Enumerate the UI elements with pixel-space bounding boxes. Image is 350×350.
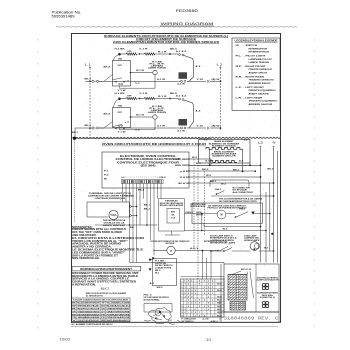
svg-text:ELEMENT GRILLOR: ELEMENT GRILLOR xyxy=(212,156,236,158)
svg-text:1: 1 xyxy=(185,287,186,289)
svg-text:2: 2 xyxy=(208,306,209,308)
svg-text:AVANT DROIT: AVANT DROIT xyxy=(249,72,269,75)
bake element xyxy=(206,148,243,150)
pin number row xyxy=(121,177,123,178)
door lamp switch symbol xyxy=(223,250,225,252)
svg-text:FRENTE DERECHO: FRENTE DERECHO xyxy=(249,69,273,71)
svg-text:Y-1: Y-1 xyxy=(135,130,140,132)
svg-text:LAMPE TEMOIN: LAMPE TEMOIN xyxy=(249,61,270,64)
wire EOC to L2 rail xyxy=(190,170,256,172)
svg-text:SW: SW xyxy=(118,59,122,61)
svg-text:BK-3: BK-3 xyxy=(85,79,91,81)
svg-text:L 1: L 1 xyxy=(85,63,92,67)
svg-text:THERMAL SW DE LIMIT (TCO): THERMAL SW DE LIMIT (TCO) xyxy=(89,192,132,195)
wire feed into table xyxy=(181,276,225,278)
svg-text:P-2: P-2 xyxy=(104,175,109,177)
svg-text:AL TANGUE DU FIL: AL TANGUE DU FIL xyxy=(86,295,104,298)
svg-text:1-2: 1-2 xyxy=(244,140,248,142)
svg-text:1: 1 xyxy=(195,303,196,305)
wire switch left to plug xyxy=(99,122,113,129)
oven lamp symbol xyxy=(250,242,259,251)
svg-text:H-1 BK: H-1 BK xyxy=(115,48,126,50)
wire EOC to N rail xyxy=(190,182,274,184)
svg-text:BK-2: BK-2 xyxy=(144,209,150,211)
svg-text:W: W xyxy=(72,306,76,308)
svg-text:BK-1: BK-1 xyxy=(72,132,78,134)
svg-text:318046869 REV. C: 318046869 REV. C xyxy=(224,318,280,322)
svg-text:BLK 2: BLK 2 xyxy=(101,286,110,290)
svg-text:INTERRUPTOR: INTERRUPTOR xyxy=(249,48,268,50)
svg-text:4-1 4-2: 4-1 4-2 xyxy=(176,94,187,97)
surface element R.F. loop xyxy=(179,54,181,56)
svg-text:MOTEUR: MOTEUR xyxy=(166,243,175,245)
svg-text:M: M xyxy=(170,249,172,253)
wire aux rail vertical 2 xyxy=(269,183,271,252)
rating stamp 2 xyxy=(262,301,265,304)
svg-text:SW-3: SW-3 xyxy=(239,209,245,211)
svg-text:ORN-1: ORN-1 xyxy=(186,212,194,214)
svg-text:GRAY/GRIS/GRIS: GRAY/GRIS/GRIS xyxy=(107,310,131,313)
broil element xyxy=(210,161,237,163)
svg-text:VENTILATEUR: VENTILATEUR xyxy=(190,205,206,208)
svg-text:WB: WB xyxy=(101,320,105,322)
color row BK xyxy=(72,303,131,305)
svg-text:WIRING DIAGRAM: WIRING DIAGRAM xyxy=(161,21,214,26)
wire L1 vertical dashed xyxy=(89,68,91,137)
svg-text:A (SEE FIG #): A (SEE FIG #) xyxy=(260,296,275,299)
lock motor symbol xyxy=(217,210,226,219)
wire switch left to plug xyxy=(99,75,113,82)
svg-text:R.R.: R.R. xyxy=(236,76,243,78)
junction L1 circuit2 xyxy=(89,127,91,129)
svg-text:PURPLE/PURPURA: PURPLE/PURPURA xyxy=(107,313,131,316)
svg-text:BU: BU xyxy=(101,306,105,308)
svg-text:2: 2 xyxy=(204,293,205,295)
svg-text:Y-10: Y-10 xyxy=(197,126,203,128)
svg-text:CLASIFICACION ELECTR.: CLASIFICACION ELECTR. xyxy=(256,279,280,282)
top tear squiggle line xyxy=(56,26,297,29)
svg-text:R.F.: R.F. xyxy=(236,66,243,68)
svg-text:RELAIS VENTILATEUR: RELAIS VENTILATEUR xyxy=(160,204,184,207)
left connector strip hatched xyxy=(228,275,247,301)
svg-text:5995391489: 5995391489 xyxy=(52,15,75,19)
wire bottom return xyxy=(99,80,153,82)
svg-text:A BK-2: A BK-2 xyxy=(211,320,218,323)
wire EOC to rail 4 xyxy=(190,176,261,178)
svg-text:L: L xyxy=(212,303,213,305)
wire lamp to N xyxy=(259,250,274,252)
svg-text:Y-1 W: Y-1 W xyxy=(118,90,126,92)
wire aux rail vertical 1 xyxy=(265,192,267,263)
svg-text:GRY, RED: GRY, RED xyxy=(175,159,189,161)
svg-text:- PILOT LIGHT: - PILOT LIGHT xyxy=(244,55,267,57)
svg-text:L2: L2 xyxy=(258,141,264,145)
svg-text:- LEFT REAR: - LEFT REAR xyxy=(244,96,263,99)
electronic oven control EOC box xyxy=(102,152,189,188)
door lock motor xyxy=(167,246,175,254)
svg-text:BLUE/AZUL/BLEU: BLUE/AZUL/BLEU xyxy=(107,305,131,308)
junction L1 circuit1 xyxy=(89,81,91,83)
wire motor left xyxy=(153,250,167,252)
wire motor right xyxy=(175,250,217,252)
svg-text:BROWN/MARRON/BRUN: BROWN/MARRON/BRUN xyxy=(78,313,100,316)
svg-text:MOTOR NORMAL: MOTOR NORMAL xyxy=(144,298,161,301)
rating stamp 1 xyxy=(262,283,265,286)
svg-text:WARNING/AVISO/AVERTISSEMENT: WARNING/AVISO/AVERTISSEMENT xyxy=(80,268,133,271)
wire lock box to rails xyxy=(263,213,270,215)
wire into connector box xyxy=(223,263,225,265)
svg-text:PINK/ROSA/ROSE: PINK/ROSA/ROSE xyxy=(107,316,131,319)
wire L2 rail vertical xyxy=(260,149,262,263)
svg-text:L.F.: L.F. xyxy=(236,87,243,89)
svg-text:2: 2 xyxy=(188,296,189,298)
svg-text:2: 2 xyxy=(212,290,213,292)
wire lock row xyxy=(211,195,274,197)
svg-text:L: L xyxy=(195,300,196,302)
svg-text:ARRIERE GAUCHE: ARRIERE GAUCHE xyxy=(249,103,273,106)
svg-text:Y-1: Y-1 xyxy=(135,83,140,85)
svg-text:BR: BR xyxy=(72,314,76,316)
svg-text:BK-4: BK-4 xyxy=(268,168,274,171)
svg-text:TN: TN xyxy=(72,317,76,319)
svg-text:LAMPARA PILOTO: LAMPARA PILOTO xyxy=(249,58,273,61)
fan relay box dashed xyxy=(159,199,185,231)
svg-text:1: 1 xyxy=(188,303,189,305)
wire relay bottom xyxy=(165,231,180,235)
wire L1 dotted rail lower xyxy=(74,140,76,223)
svg-text:R-9: R-9 xyxy=(196,163,201,165)
svg-text:SW-2: SW-2 xyxy=(215,189,221,191)
color row R xyxy=(72,309,131,311)
latch mechanism sketch xyxy=(148,308,171,324)
svg-text:L: L xyxy=(212,300,213,302)
svg-text:BR-1: BR-1 xyxy=(210,181,216,183)
svg-text:L 2: L 2 xyxy=(217,63,224,67)
svg-text:BK-1: BK-1 xyxy=(144,205,150,207)
svg-text:W-1 W: W-1 W xyxy=(136,115,144,117)
svg-text:W-1: W-1 xyxy=(264,247,269,249)
svg-text:BLACK/NEGRO/NOIR: BLACK/NEGRO/NOIR xyxy=(78,302,101,305)
svg-text:4-1 W: 4-1 W xyxy=(157,125,165,128)
wire circuit2 to bus xyxy=(75,127,85,129)
heavy bus tear line xyxy=(73,137,281,138)
thermal limiter loop xyxy=(87,202,130,217)
triangle marker xyxy=(252,212,255,215)
svg-text:NON VERROUILLEE.: NON VERROUILLEE. xyxy=(72,257,100,260)
svg-text:(ES 364): (ES 364) xyxy=(141,165,156,168)
svg-text:BK-2: BK-2 xyxy=(202,169,208,171)
infinite switch SW L.F. xyxy=(113,108,131,128)
color row W xyxy=(72,306,131,308)
svg-text:- SWITCH: - SWITCH xyxy=(244,45,258,47)
interlock switch xyxy=(219,247,228,252)
svg-text:PK: PK xyxy=(101,317,105,319)
svg-text:- RIGHT FRONT: - RIGHT FRONT xyxy=(244,66,267,68)
svg-text:(4) W: (4) W xyxy=(212,78,220,81)
svg-text:SW CERROJO: SW CERROJO xyxy=(182,321,195,323)
svg-text:WHITE/BLANCO/BLANC: WHITE/BLANCO/BLANC xyxy=(78,305,100,308)
lower connector strip xyxy=(230,302,246,311)
rounded interconnect path W-2 xyxy=(210,180,249,187)
wire bundle below EOC xyxy=(122,184,124,202)
svg-text:1-1: 1-1 xyxy=(204,140,208,142)
svg-text:RED: RED xyxy=(171,212,176,214)
svg-text:WHT-BLK/BLANCO: WHT-BLK/BLANCO xyxy=(107,319,130,322)
svg-text:OR: OR xyxy=(72,311,76,313)
triangle connector xyxy=(152,258,154,260)
junction drop xyxy=(202,250,204,252)
svg-text:BK: BK xyxy=(72,303,76,305)
bake broil elements box xyxy=(199,140,251,164)
svg-text:LAMPE TEMOIN: LAMPE TEMOIN xyxy=(148,67,167,70)
svg-text:2: 2 xyxy=(185,296,186,298)
svg-text:BK-: BK- xyxy=(130,227,135,229)
svg-text:4-1 W: 4-1 W xyxy=(177,129,185,132)
svg-text:Y-1 R: Y-1 R xyxy=(139,48,149,50)
svg-text:Y-8: Y-8 xyxy=(171,218,175,220)
svg-text:L: L xyxy=(181,284,182,286)
svg-text:DE PUERTA/INTERRUPTEUR PORTE: DE PUERTA/INTERRUPTEUR PORTE xyxy=(219,200,258,203)
wire switch to top bus xyxy=(114,99,122,108)
svg-text:W-2: W-2 xyxy=(221,184,226,186)
svg-text:P-1: P-1 xyxy=(104,171,109,173)
svg-text:GN: GN xyxy=(101,309,105,311)
svg-text:4-1 4-2: 4-1 4-2 xyxy=(176,50,187,53)
svg-text:TAN/HABANO/HAVANE: TAN/HABANO/HAVANE xyxy=(78,316,101,319)
svg-text:4-2-1: 4-2-1 xyxy=(190,247,198,250)
element terminal block xyxy=(179,72,188,79)
svg-text:FRENTE IZQUIERDO: FRENTE IZQUIERDO xyxy=(249,90,277,92)
wire L2 vertical dashed xyxy=(220,68,222,130)
warning box xyxy=(72,266,141,271)
scan speckle noise xyxy=(72,34,279,323)
svg-text:A REPARATION.: A REPARATION. xyxy=(72,283,96,286)
wire top with resistor elements xyxy=(121,98,126,100)
relay inner block xyxy=(167,209,179,224)
color row OR xyxy=(72,312,131,314)
plug terminals xyxy=(96,127,98,129)
wire bottom return xyxy=(99,127,153,129)
svg-text:INTERRUPTEUR: INTERRUPTEUR xyxy=(249,52,270,54)
sketch hatch marks xyxy=(152,312,165,320)
svg-text:SW-2: SW-2 xyxy=(157,287,163,289)
svg-text:RED/ROJO/ROUGE: RED/ROJO/ROUGE xyxy=(78,309,101,311)
svg-text:GREEN/VERDE/VERT: GREEN/VERDE/VERT xyxy=(107,309,131,311)
svg-text:2: 2 xyxy=(191,287,192,289)
svg-text:ARRIERE DROIT: ARRIERE DROIT xyxy=(249,82,272,85)
latch switch detail box xyxy=(153,259,177,286)
wire top with resistor elements xyxy=(121,53,126,55)
svg-text:BK-3: BK-3 xyxy=(85,125,91,127)
svg-text:2: 2 xyxy=(191,290,192,292)
svg-text:1: 1 xyxy=(185,284,186,286)
svg-text:L: L xyxy=(185,281,186,283)
svg-text:4-1 W: 4-1 W xyxy=(177,83,185,86)
svg-text:YELLOW/AMARILLO/JAUNE: YELLOW/AMARILLO/JAUNE xyxy=(107,302,130,305)
wire dashed risers xyxy=(193,159,195,251)
svg-text:4-2: 4-2 xyxy=(196,110,201,113)
svg-text:10/03: 10/03 xyxy=(59,338,70,342)
svg-text:AVANT GAUCHE: AVANT GAUCHE xyxy=(249,92,270,95)
svg-text:EOC-8: EOC-8 xyxy=(241,269,252,271)
svg-text:BK W D: BK W D xyxy=(178,183,188,185)
svg-text:1: 1 xyxy=(208,281,209,283)
connector box outline xyxy=(224,264,279,312)
wire N rail vertical xyxy=(273,149,275,263)
svg-text:PR: PR xyxy=(101,314,105,316)
svg-text:1: 1 xyxy=(185,290,186,292)
svg-text:ORANGE/NARANJA/ORANGE: ORANGE/NARANJA/ORANGE xyxy=(78,310,100,313)
svg-text:LIMITADOR DE LIMITE TERMAL: LIMITADOR DE LIMITE TERMAL xyxy=(88,195,133,198)
thermal fuse symbol xyxy=(109,210,118,219)
legend box xyxy=(232,38,280,111)
svg-text:LAMPE TEMOIN: LAMPE TEMOIN xyxy=(148,111,167,114)
latch bracket outline xyxy=(144,304,172,313)
infinite switch SW R.F. xyxy=(113,61,131,87)
svg-text:4-1 W: 4-1 W xyxy=(157,78,165,81)
svg-text:1: 1 xyxy=(191,303,192,305)
svg-text:1: 1 xyxy=(208,296,209,298)
svg-text:- LEFT FRONT: - LEFT FRONT xyxy=(244,87,265,89)
svg-text:L.R.: L.R. xyxy=(236,97,243,99)
color code table xyxy=(72,298,131,322)
svg-text:2: 2 xyxy=(181,287,182,289)
svg-text:BK-W: BK-W xyxy=(217,290,222,292)
svg-text:R-1 R: R-1 R xyxy=(158,96,168,98)
color row TN xyxy=(72,318,131,320)
svg-text:2: 2 xyxy=(191,293,192,295)
EOC pin strip xyxy=(121,180,123,184)
svg-text:HORNO/LAMPE: HORNO/LAMPE xyxy=(244,239,260,242)
svg-text:W-1 W: W-1 W xyxy=(136,70,144,72)
right margin perforation dots xyxy=(314,39,315,326)
svg-text:H-1 BK: H-1 BK xyxy=(115,93,126,95)
svg-text:(4) W: (4) W xyxy=(212,125,220,128)
svg-text:MOTOR: MOTOR xyxy=(196,214,204,216)
element terminal block xyxy=(179,119,188,126)
wire horizontal crossover xyxy=(95,224,157,226)
svg-text:μ H D: μ H D xyxy=(180,171,189,173)
svg-text:Y-1 W: Y-1 W xyxy=(118,131,126,133)
svg-text:M: M xyxy=(221,214,223,217)
svg-text:ELEMENT CUISSON: ELEMENT CUISSON xyxy=(212,145,237,147)
svg-text:2: 2 xyxy=(204,306,205,308)
wire element to L2 xyxy=(189,127,206,129)
svg-text:BK-W: BK-W xyxy=(217,284,222,286)
svg-text:TRASERO IZQUIERDO: TRASERO IZQUIERDO xyxy=(249,100,278,103)
svg-text:FED355D: FED355D xyxy=(176,9,199,13)
wire switch to top bus xyxy=(114,54,122,61)
left margin perforation dots xyxy=(37,39,38,328)
lock motor box xyxy=(192,203,263,223)
svg-text:BRN, RED: BRN, RED xyxy=(175,165,189,167)
svg-text:10: 10 xyxy=(206,338,211,342)
svg-text:BK-W: BK-W xyxy=(217,296,222,298)
svg-text:BK-8: BK-8 xyxy=(104,114,110,116)
svg-text:W-9: W-9 xyxy=(206,175,211,177)
svg-text:N: N xyxy=(273,141,276,145)
svg-text:VIOLET/VIOLETA/VIOLET: VIOLET/VIOLETA/VIOLET xyxy=(78,319,101,322)
plug terminals xyxy=(96,80,98,82)
svg-text:4-1: 4-1 xyxy=(150,282,155,285)
svg-text:W-2: W-2 xyxy=(155,273,159,275)
svg-text:L: L xyxy=(191,281,192,283)
color row V xyxy=(72,321,131,323)
svg-text:LEGEND/LEYENDA/LEGENDE: LEGEND/LEYENDA/LEGENDE xyxy=(235,39,279,42)
wire switch bottom exit xyxy=(119,128,121,130)
wire elements box terminals down xyxy=(209,150,211,166)
wire drops to relay and latch xyxy=(139,184,141,225)
state table tall bottom row xyxy=(181,316,225,318)
svg-text:W-2: W-2 xyxy=(192,157,197,159)
svg-text:L: L xyxy=(208,309,209,311)
wire right frame rail xyxy=(277,151,279,263)
wire element to L2 xyxy=(189,80,206,82)
sketch dark spots xyxy=(159,311,161,313)
surface element L.F. loop xyxy=(179,98,181,100)
wire EOC to elements bake xyxy=(190,164,251,166)
svg-text:TRASERO DERECHO: TRASERO DERECHO xyxy=(249,79,275,82)
svg-text:- RIGHT REAR: - RIGHT REAR xyxy=(244,75,265,78)
color row BR xyxy=(72,315,131,317)
bottom tear squiggle line xyxy=(71,325,278,328)
svg-text:BK-8: BK-8 xyxy=(104,67,110,69)
svg-text:BK-4: BK-4 xyxy=(138,189,144,192)
svg-text:N.C. ALAMBRE CONTROLADOR DEL R: N.C. ALAMBRE CONTROLADOR DEL RELOJ xyxy=(72,323,114,326)
wire switch bottom exit xyxy=(119,86,121,88)
svg-text:R H D: R H D xyxy=(180,177,189,179)
thermal loop terminals xyxy=(130,206,132,208)
drawing frame border xyxy=(72,34,281,323)
sketch tail squiggles xyxy=(144,317,182,324)
title block xyxy=(221,312,279,322)
wire collect bottom xyxy=(130,262,225,264)
latch state table xyxy=(181,279,225,317)
svg-text:Y-10: Y-10 xyxy=(197,79,203,81)
svg-text:SW: SW xyxy=(118,106,122,108)
svg-text:P.L.: P.L. xyxy=(236,55,243,57)
svg-text:Y-1 R: Y-1 R xyxy=(139,93,149,95)
wire relay to rail stepped xyxy=(184,213,192,215)
svg-text:4-2: 4-2 xyxy=(196,65,201,68)
svg-text:4-1 W: 4-1 W xyxy=(203,318,209,321)
svg-text:LAMPE VENTILAT: LAMPE VENTILAT xyxy=(103,224,126,227)
svg-text:B-1: B-1 xyxy=(206,161,210,163)
svg-text:1: 1 xyxy=(195,293,196,295)
wire EOC to elements 1-1 xyxy=(190,158,212,160)
